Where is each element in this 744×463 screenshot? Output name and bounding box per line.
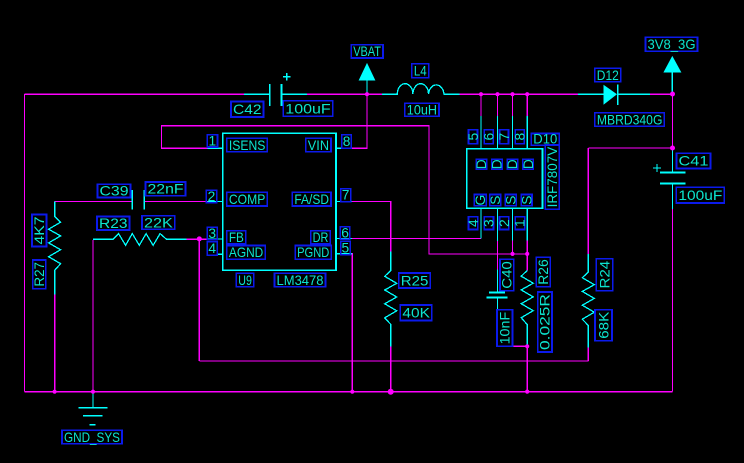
value 0.025R of R26 (rotated): [538, 292, 553, 352]
pin name COMP: [227, 192, 267, 207]
net label VBAT: [351, 44, 383, 59]
value 10uH of L4: [405, 103, 439, 118]
svg-text:10nF: 10nF: [498, 312, 513, 345]
D10 pin number 2: [497, 217, 512, 230]
svg-text:D: D: [505, 159, 520, 169]
pin name PGND: [295, 245, 331, 260]
diode D12: [578, 85, 650, 105]
svg-text:5: 5: [466, 133, 481, 141]
junction node D10 pin5: [479, 92, 483, 96]
U9 pin 7 stub: [336, 200, 352, 202]
U9 pin 4 stub: [217, 253, 223, 255]
D10 pin 3 lead: [497, 208, 499, 241]
net label GND_SYS: [62, 430, 122, 445]
wire D10 pin5 stub: [480, 94, 482, 116]
inductor L4: [382, 84, 459, 95]
pin number 3: [207, 226, 217, 241]
designator R23: [97, 216, 130, 231]
wire FA-SD to R25: [352, 201, 391, 251]
designator C42: [231, 102, 264, 118]
svg-text:MBRD340G: MBRD340G: [597, 112, 663, 127]
wire left vertical: [24, 94, 26, 392]
wire ISENS loop: [162, 126, 528, 254]
svg-text:4: 4: [466, 219, 481, 227]
pin name AGND: [227, 245, 265, 260]
ground symbol: [78, 392, 107, 425]
resistor R23: [93, 234, 187, 246]
svg-text:100uF: 100uF: [678, 188, 722, 203]
designator R26 (rotated): [536, 257, 551, 287]
junction node R26 on bus: [525, 390, 529, 394]
D10 pin number 5: [466, 130, 481, 144]
svg-text:S: S: [488, 195, 503, 204]
designator U9: [236, 273, 254, 288]
junction node D10 pin8: [525, 92, 529, 96]
svg-text:COMP: COMP: [229, 192, 265, 207]
junction node PGND on bus: [350, 390, 354, 394]
designator R24 (rotated): [596, 259, 613, 291]
net label 3V8_3G: [646, 37, 698, 52]
D10 pin name D (pin8): [521, 159, 536, 169]
U9 pin 3 stub: [207, 238, 223, 240]
svg-text:PGND: PGND: [297, 245, 329, 260]
designator C39: [98, 184, 131, 199]
svg-text:8: 8: [343, 134, 351, 149]
wire D10 pin6 stub: [497, 94, 499, 116]
op-amp U9 IC body: [223, 133, 336, 270]
svg-text:D12: D12: [597, 68, 619, 83]
D10 pin 2 lead: [512, 208, 514, 240]
svg-text:4K7: 4K7: [32, 217, 47, 245]
svg-text:FB: FB: [229, 230, 244, 245]
svg-text:3: 3: [208, 226, 216, 241]
wire C40 bottom link: [498, 345, 528, 347]
svg-text:22K: 22K: [144, 215, 174, 230]
designator C40 (rotated): [500, 259, 515, 291]
wire FB feedback line horizontal: [199, 360, 588, 362]
svg-text:3V8_3G: 3V8_3G: [648, 37, 696, 52]
junction node R24 top at C41: [670, 146, 675, 151]
wire ground bus bottom: [25, 391, 673, 393]
svg-text:6: 6: [341, 226, 349, 241]
D10 pin number 6: [481, 130, 496, 144]
wire DR to D10 gate: [352, 238, 481, 240]
pin name DR: [311, 230, 331, 245]
wire R23 left down to bus: [92, 240, 94, 392]
wire D10 pin2 to sense line: [512, 241, 514, 254]
transistor D10 IRF7807V body: [467, 149, 543, 209]
pin number 1: [207, 133, 217, 148]
svg-text:D: D: [474, 159, 489, 169]
pin number 5: [341, 241, 351, 256]
junction node output at 3V8: [670, 92, 675, 97]
svg-text:C42: C42: [233, 102, 262, 117]
wire R24 column upper: [587, 148, 589, 254]
svg-text:3: 3: [482, 219, 497, 227]
svg-text:40K: 40K: [402, 306, 430, 321]
wire R23 to FB pin: [187, 238, 208, 240]
pin number 2: [206, 189, 216, 204]
D10 pin name S (pin2): [504, 195, 519, 206]
junction node C40 R26 bottom: [525, 344, 529, 348]
svg-text:4: 4: [208, 241, 216, 256]
wire VBAT column: [366, 94, 368, 125]
svg-text:5: 5: [342, 241, 350, 256]
svg-text:U9: U9: [238, 273, 252, 288]
svg-text:VIN: VIN: [308, 138, 329, 153]
value LM3478 of U9: [275, 273, 326, 288]
value 100uF of C42: [283, 101, 332, 117]
svg-text:DR: DR: [313, 230, 329, 245]
wire PGND down to bus: [351, 254, 353, 392]
junction node FB: [197, 236, 202, 241]
svg-text:L4: L4: [414, 64, 427, 79]
svg-text:C41: C41: [679, 154, 709, 169]
wire D10 pin7 stub: [512, 94, 514, 116]
pin number 7: [341, 188, 351, 203]
svg-text:LM3478: LM3478: [277, 273, 324, 288]
value 22K of R23: [142, 215, 175, 230]
svg-text:10uH: 10uH: [407, 103, 437, 118]
junction node R27 on bus: [53, 390, 57, 394]
junction node sense line pin2: [510, 252, 514, 256]
svg-text:0.025R: 0.025R: [538, 294, 553, 350]
svg-text:ISENS: ISENS: [229, 138, 266, 153]
junction node R25 on bus: [388, 389, 394, 395]
designator C41: [677, 153, 711, 169]
value 68K of R24 (rotated): [595, 310, 612, 341]
wire COMP left of C39: [55, 200, 132, 202]
svg-text:G: G: [473, 195, 488, 206]
pin name FA/SD: [292, 192, 331, 207]
U9 pin 6 stub: [336, 238, 352, 240]
D10 pin number 8: [513, 130, 528, 144]
junction node sense line R26 top: [525, 252, 529, 256]
svg-text:R26: R26: [536, 259, 551, 285]
wire R27 bottom column: [54, 295, 56, 392]
svg-text:GND_SYS: GND_SYS: [64, 430, 120, 445]
resistor R24: [582, 254, 594, 347]
svg-text:C40: C40: [500, 261, 515, 289]
wire C42 to L4: [307, 93, 382, 95]
D10 pin 7 lead: [512, 116, 514, 148]
pin number 4: [207, 241, 217, 256]
D10 pin name S (pin1): [519, 195, 534, 206]
D10 pin number 1: [513, 217, 528, 230]
svg-text:7: 7: [342, 188, 350, 203]
wire D10 pin1 to R26: [526, 241, 528, 271]
D10 pin 1 lead: [526, 208, 528, 240]
svg-text:R23: R23: [99, 216, 128, 231]
pin name FB: [227, 230, 246, 245]
wire D10 pin3 to C40: [497, 241, 499, 269]
junction node D10 pin7: [510, 92, 514, 96]
D10 pin number 7: [497, 130, 512, 144]
junction node VBAT on top rail: [365, 92, 369, 96]
capacitor C39: [132, 190, 144, 210]
D10 pin 8 lead: [526, 116, 528, 148]
svg-text:68K: 68K: [596, 311, 611, 339]
svg-text:6: 6: [481, 133, 496, 141]
pin name ISENS: [227, 138, 268, 153]
D10 pin name D (pin5): [474, 159, 489, 169]
svg-text:AGND: AGND: [229, 245, 263, 260]
value MBRD340G of D12: [595, 112, 665, 127]
wire R24 bottom to FB line: [587, 347, 589, 361]
wire R26 bottom to bus: [526, 346, 528, 391]
D10 pin number 3: [482, 217, 497, 230]
value 4K7 of R27 (rotated): [32, 215, 47, 247]
D10 pin name D (pin7): [505, 159, 520, 169]
pin name VIN: [306, 138, 331, 153]
pin number 8: [342, 134, 352, 149]
designator D12: [595, 68, 621, 83]
svg-text:2: 2: [497, 219, 512, 227]
svg-text:C39: C39: [100, 184, 129, 199]
svg-text:2: 2: [208, 189, 216, 204]
U9 pin 8 stub: [336, 147, 352, 149]
svg-text:1: 1: [209, 133, 217, 148]
value 40K of R25: [400, 305, 432, 321]
value 100uF of C41: [676, 187, 724, 203]
U9 pin 1 stub: [207, 147, 223, 149]
D10 pin 6 lead: [497, 116, 499, 148]
svg-text:R25: R25: [401, 273, 429, 288]
D10 pin number 4: [466, 217, 481, 230]
resistor R27: [49, 201, 61, 294]
D10 pin name G (pin4): [473, 195, 488, 206]
wire D10 pin8 stub: [526, 94, 528, 116]
svg-text:22nF: 22nF: [148, 182, 184, 197]
svg-text:S: S: [519, 195, 534, 204]
resistor R25: [385, 252, 397, 347]
wire L4 to D12: [459, 93, 578, 95]
designator R25: [399, 273, 431, 288]
capacitor C40: [486, 269, 507, 346]
svg-text:100uF: 100uF: [285, 101, 330, 116]
value 10nF of C40 (rotated): [497, 310, 513, 347]
D10 pin name D (pin6): [490, 159, 505, 169]
capacitor C42: [244, 73, 307, 106]
D10 pin 5 lead: [480, 116, 482, 148]
junction node GND stem on bus: [91, 390, 95, 394]
designator R27 (rotated): [32, 260, 47, 289]
wire top rail from left loop to C42: [25, 93, 245, 95]
value 22nF of C39: [146, 182, 186, 197]
wire C39 to COMP pin: [145, 200, 207, 202]
wire FB node vertical: [198, 239, 200, 361]
svg-text:S: S: [504, 195, 519, 204]
svg-text:D: D: [490, 159, 505, 169]
designator D10: [531, 132, 559, 147]
svg-text:R24: R24: [597, 260, 612, 288]
pin number 6: [340, 226, 349, 241]
svg-text:1: 1: [513, 219, 528, 227]
designator L4: [412, 64, 429, 79]
wire C41 bottom to bus: [672, 209, 674, 392]
wire R25 bottom to bus: [390, 346, 392, 391]
svg-text:8: 8: [513, 133, 528, 141]
wire VIN to VBAT column: [352, 126, 367, 149]
svg-text:FA/SD: FA/SD: [294, 192, 329, 207]
power port VBAT: [359, 63, 376, 94]
D10 pin name S (pin3): [488, 195, 503, 206]
wire D12 to output node: [650, 93, 673, 95]
svg-text:D: D: [521, 159, 536, 169]
svg-text:VBAT: VBAT: [353, 44, 381, 59]
capacitor C41: [653, 148, 686, 209]
wire output node down to C41: [672, 94, 674, 148]
junction node D10 pin6: [495, 92, 499, 96]
value IRF7807V of D10: [545, 145, 560, 210]
U9 pin 5 stub: [336, 253, 352, 255]
svg-text:IRF7807V: IRF7807V: [545, 146, 560, 207]
U9 pin 2 stub: [207, 200, 223, 202]
power port 3V8_3G: [663, 56, 681, 94]
D10 pin 4 lead: [480, 208, 482, 238]
wire R24 top horizontal: [588, 147, 672, 149]
resistor R26: [521, 271, 533, 347]
svg-text:7: 7: [497, 133, 512, 141]
svg-text:R27: R27: [32, 262, 47, 287]
